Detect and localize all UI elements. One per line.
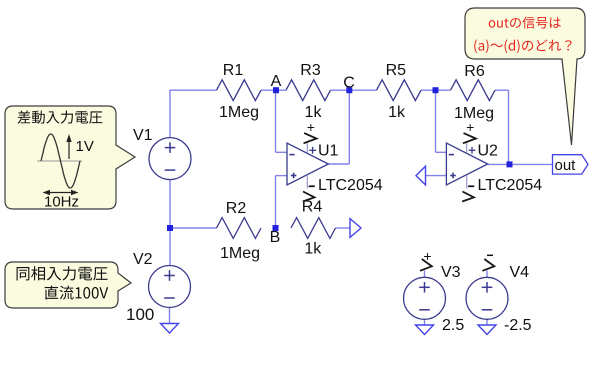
wire corner down to output node [508,90,510,164]
callout: common-mode input annotation [5,262,131,308]
wire V1 bottom to V2 top [169,180,171,266]
bubble line2 [474,39,571,53]
wire U1 output to node C [328,163,349,165]
wire junction down to U2 inverting input [435,90,437,152]
svg-text:1k: 1k [304,241,322,258]
bubble line1 [489,16,561,28]
resistor R4 [291,218,336,239]
out port [553,155,589,174]
svg-text:V2: V2 [133,251,153,268]
junction V1/V2/R2 [167,225,173,231]
svg-text:U1: U1 [318,143,339,160]
svg-text:1V: 1V [76,138,94,155]
svg-text:2.5: 2.5 [442,317,464,334]
output junction [507,161,513,167]
callout2 line1 同相入力電圧 [17,266,108,280]
callout: differential input annotation [5,106,135,209]
net flag + at U1 V+ [304,133,317,143]
wire R4 to ground flag [336,227,351,229]
op-amp U2 LTC2054 [446,143,487,185]
voltage source V4 [466,277,508,319]
node B junction [273,225,279,231]
svg-text:A: A [271,73,282,90]
svg-text:10Hz: 10Hz [44,194,79,211]
net flag + at V3 [420,259,432,271]
callout1 title 差動入力電圧 [18,110,103,123]
net flag + at U2 V+ [463,133,476,143]
wire top rail V1 to R1 [170,89,217,91]
svg-text:out: out [555,157,577,174]
resistor R3 [286,80,331,101]
wire U2 output to out port [488,163,553,165]
svg-text:B: B [270,229,281,246]
net flag - at V4 [483,259,495,271]
svg-text:R5: R5 [386,62,407,79]
svg-text:C: C [343,75,355,92]
svg-text:V1: V1 [133,127,153,144]
voltage source V2 [149,266,191,308]
ground under V3 [416,325,434,335]
wire R6 right to corner [495,89,509,91]
node A junction [273,87,279,93]
svg-text:+: + [307,119,315,135]
10Hz double arrow [45,192,76,194]
svg-text:-2.5: -2.5 [504,317,532,334]
svg-text:+: + [466,119,474,135]
svg-text:LTC2054: LTC2054 [318,177,383,194]
wire R3 to R5 through node C [331,89,377,91]
node C junction [346,87,352,93]
svg-text:R1: R1 [223,62,244,79]
svg-text:LTC2054: LTC2054 [478,177,543,194]
voltage source V1 [149,138,191,180]
svg-text:R3: R3 [300,62,321,79]
wire node A down to U1 inverting input [275,90,277,152]
svg-text:R2: R2 [226,200,247,217]
svg-text:U2: U2 [478,143,499,160]
net flag - at U1 V- [303,192,315,202]
svg-text:1Meg: 1Meg [219,104,259,121]
svg-text:R6: R6 [464,63,485,80]
wire junction to R2 [170,227,217,229]
wire R5 to R6 through junction [421,89,451,91]
resistor R2 [217,218,262,239]
wire V4 top stub [486,271,488,278]
svg-text:1k: 1k [388,104,406,121]
ground under V2 [161,324,179,334]
wire node B up to U1 noninverting input [275,176,277,228]
op-amp U1 LTC2054 [287,143,328,185]
net flag - at U2 V- [462,192,474,202]
svg-text:V3: V3 [441,264,461,281]
svg-text:V4: V4 [510,264,530,281]
wire ground to U2 noninverting input [426,175,447,177]
wire V4 bottom to ground [486,319,488,325]
svg-text:+: + [423,248,431,264]
ground left-pointing at U2 noninverting input [416,166,426,185]
resistor R1 [217,80,262,101]
svg-text:100: 100 [126,305,154,324]
wire V3 bottom to ground [424,319,426,325]
speech bubble: outの信号は (a)〜(d)のどれ？ [465,8,585,145]
wire R1 to R3 through node A [261,89,286,91]
callout2 line2 直流100V [45,286,109,300]
wire V1 top vertical [169,90,171,138]
ground right-pointing at R4 [350,219,361,238]
resistor R6 [451,80,496,101]
svg-text:1Meg: 1Meg [220,245,260,262]
1V arrow [68,140,70,159]
resistor R5 [377,80,422,101]
voltage source V3 [404,277,446,319]
sine wave graphic [37,160,82,162]
junction R5/R6/U2 [433,87,439,93]
wire V3 top stub [424,271,426,278]
wire V2 bottom to ground [169,308,171,324]
ground under V4 [478,325,496,335]
